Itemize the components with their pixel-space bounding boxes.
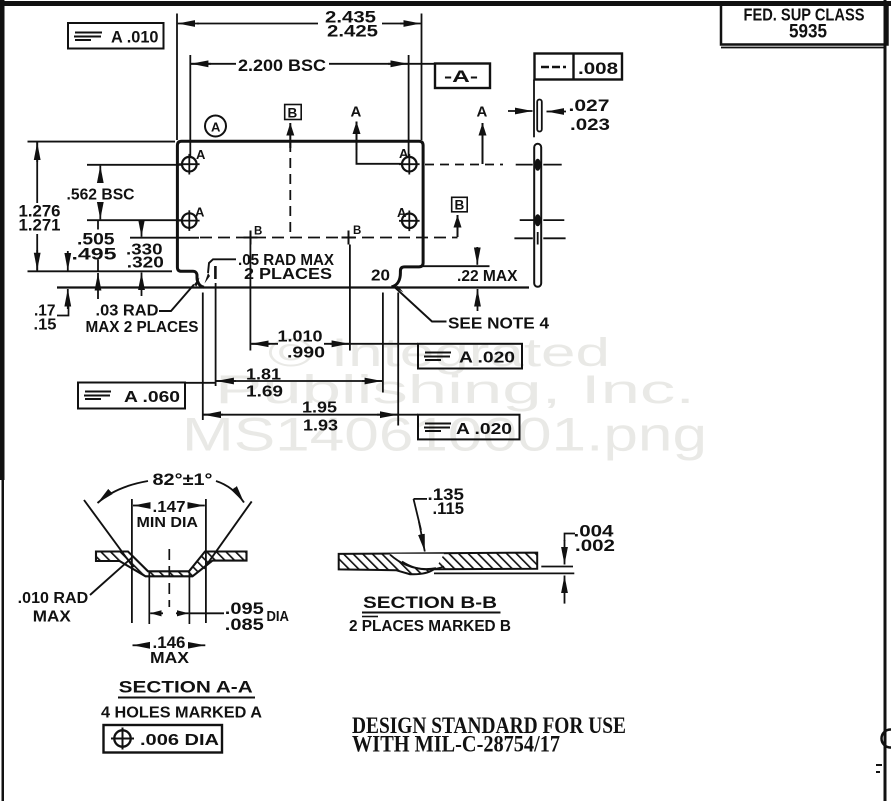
side view hole row 1 [516,159,562,171]
top extension line of part [28,141,176,143]
FED SUP CLASS title box [721,4,888,48]
dim 1.276/1.271 [19,142,61,271]
svg-text:DIA: DIA [267,608,290,625]
SECTION A-A countersink cross-section [96,552,247,577]
datum target B right arrow [452,197,468,237]
leader SEE NOTE 4 [395,286,550,333]
svg-text:B: B [353,225,361,237]
datum -A- frame [435,64,490,89]
note DESIGN STANDARD [352,713,626,758]
straightness frame .008 [535,54,623,80]
datum target B top arrow [285,105,302,149]
terminal cross B right [342,225,362,245]
dim 2.435/2.425 [177,9,422,141]
svg-text:1.81: 1.81 [246,367,281,384]
svg-text:A: A [477,104,488,121]
svg-text:.023: .023 [570,116,610,134]
watermark [182,331,707,461]
svg-text:.320: .320 [127,255,164,272]
terminal cross B left [244,226,263,245]
svg-text:.008: .008 [578,59,618,78]
svg-text:SEE NOTE 4: SEE NOTE 4 [448,316,549,333]
svg-text:MAX: MAX [33,609,71,626]
svg-text:.002: .002 [575,537,615,555]
datum A right arrow [477,104,488,165]
dim .146 MAX [133,634,206,667]
hole extension lines [148,572,150,624]
svg-text:A .020: A .020 [456,421,512,438]
dim .17/.15 [34,251,69,334]
svg-text:1.93: 1.93 [303,418,338,435]
dash-dot line right of top hole row [425,164,503,166]
svg-text:2.200 BSC: 2.200 BSC [238,57,326,75]
hole A top-right [399,146,420,175]
svg-text:SECTION B-B: SECTION B-B [363,593,497,612]
side view hole row 2 [520,214,565,226]
svg-text:.495: .495 [72,246,117,264]
side view: plate top segment [537,100,542,132]
svg-text:B: B [455,198,465,213]
svg-text:1.95: 1.95 [302,400,337,417]
svg-text:A: A [195,205,205,220]
left shelf extension [28,270,173,272]
datum target A top arrow with elbow to hole [351,104,402,164]
hole A top-left [179,147,206,175]
svg-text:A: A [196,147,206,162]
hole A bottom-right [397,205,420,231]
svg-text:.006 DIA: .006 DIA [140,732,220,749]
right shelf extension (.22MAX top ref) [423,265,490,267]
svg-text:Publishing, Inc.: Publishing, Inc. [215,368,695,412]
dim .095/.085 DIA [150,600,289,634]
svg-text:A: A [397,205,407,220]
svg-text:82°±1°: 82°±1° [153,471,213,489]
dim .004/.002 [434,523,615,604]
dim 1.81/1.69 [216,367,382,401]
extension lines below part [202,293,204,421]
svg-text:5935: 5935 [789,22,827,43]
dim .505/.495 [72,221,117,299]
dim 1.010/.990 [251,329,418,362]
dim .562 BSC [67,166,135,220]
svg-text:.115: .115 [433,500,465,518]
svg-text:A: A [399,146,409,161]
svg-text:A .020: A .020 [459,350,515,367]
svg-text:.22 MAX: .22 MAX [457,268,518,285]
position frame .006 DIA [104,725,223,753]
svg-text:.562 BSC: .562 BSC [67,187,135,204]
dim 2.200 BSC [190,55,435,156]
hole row extension lines left [87,164,182,166]
svg-text:A: A [211,120,221,135]
svg-text:SECTION A-A: SECTION A-A [119,678,253,697]
SECTION B-B title [349,593,511,635]
svg-text:2 PLACES MARKED B: 2 PLACES MARKED B [349,618,511,635]
svg-text:MIN DIA: MIN DIA [137,514,199,531]
svg-text:.010 RAD: .010 RAD [18,590,89,607]
leader .03 RAD MAX 2 PLACES [86,278,200,337]
dim 1.95/1.93 [204,400,419,435]
side view: .008 leader [533,80,535,138]
svg-text:A: A [351,104,362,121]
hole A bottom-left [179,205,205,231]
parallelism frame A.020 lower [418,415,520,440]
dim .147 MIN DIA [132,499,206,623]
svg-text:B: B [288,106,298,121]
side view terminal row [514,232,565,245]
leader .010 RAD MAX [18,558,132,626]
svg-text:MAX 2 PLACES: MAX 2 PLACES [86,319,199,336]
svg-text:A .060: A .060 [124,389,180,406]
svg-text:.03 RAD: .03 RAD [96,303,159,320]
svg-text:.027: .027 [569,97,610,115]
flange bottom / extension line y=287.5 [57,286,529,288]
borders [0,1,891,6]
svg-text:-A-: -A- [444,68,478,86]
side view: main plate bar [534,144,541,287]
svg-text:.085: .085 [225,616,264,634]
parallelism frame A.020 upper [418,344,522,369]
leader .05 RAD MAX [205,252,335,284]
SECTION A-A title [101,678,262,722]
pin number 1 [214,266,217,279]
svg-text:1.69: 1.69 [246,384,283,401]
part outline (plan view) [177,141,423,287]
dim .027/.023 [508,97,610,134]
svg-text:B: B [254,226,262,238]
svg-text:2.425: 2.425 [327,23,378,41]
svg-text:WITH MIL-C-28754/17: WITH MIL-C-28754/17 [352,732,560,758]
SECTION B-B cross-section plate [339,553,538,575]
circled A balloon [205,116,226,137]
right border marks [882,730,891,748]
svg-text:MAX: MAX [150,650,190,667]
leader .135/.115 [414,486,465,552]
svg-text:.15: .15 [34,317,57,334]
svg-text:4 HOLES MARKED A: 4 HOLES MARKED A [101,705,262,722]
centerline dashed vertical in part [289,142,291,237]
svg-text:A .010: A .010 [111,29,159,47]
svg-text:2 PLACES: 2 PLACES [244,266,332,283]
svg-text:1.010: 1.010 [278,329,323,346]
flatness frame A.010 [68,23,164,49]
dim .330/.320 [126,221,164,296]
dim .22 MAX [457,247,518,311]
centerline [168,549,170,607]
svg-text:.990: .990 [287,345,325,362]
82 degree arc arrows [98,481,149,503]
parallelism frame A.060 [78,383,216,409]
82 degree cone lines [84,500,133,567]
terminal row dashed line [130,237,199,239]
svg-text:1.271: 1.271 [19,217,61,235]
svg-text:20: 20 [371,268,390,285]
